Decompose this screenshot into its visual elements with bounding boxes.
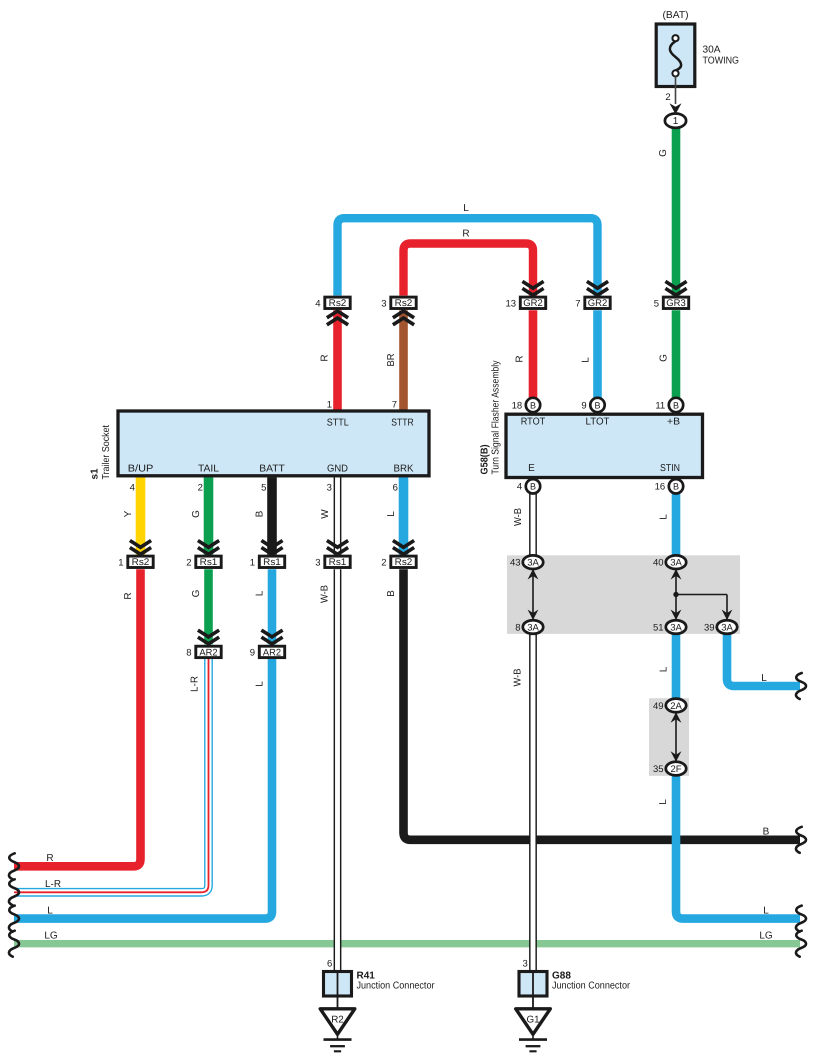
svg-text:Rs1: Rs1 xyxy=(329,557,347,568)
svg-text:AR2: AR2 xyxy=(263,647,281,658)
svg-text:L: L xyxy=(581,357,592,363)
svg-text:G58(B): G58(B) xyxy=(479,445,490,475)
svg-text:Junction Connector: Junction Connector xyxy=(552,981,631,992)
svg-text:BRK: BRK xyxy=(394,463,414,474)
svg-text:B: B xyxy=(673,482,679,492)
svg-text:L: L xyxy=(658,799,669,805)
svg-text:Rs2: Rs2 xyxy=(395,557,413,568)
svg-text:G: G xyxy=(191,510,202,518)
svg-text:8: 8 xyxy=(186,648,191,659)
svg-text:LG: LG xyxy=(44,931,58,942)
svg-text:B/UP: B/UP xyxy=(128,463,154,474)
svg-text:W: W xyxy=(320,509,331,519)
svg-text:Y: Y xyxy=(123,510,134,517)
svg-text:11: 11 xyxy=(655,400,665,411)
svg-text:W-B: W-B xyxy=(320,585,331,603)
svg-text:STTR: STTR xyxy=(391,418,414,429)
svg-text:2: 2 xyxy=(381,557,386,568)
svg-text:L-R: L-R xyxy=(190,676,201,692)
svg-text:3: 3 xyxy=(523,959,528,970)
svg-text:30A: 30A xyxy=(703,45,721,56)
svg-text:GR3: GR3 xyxy=(666,298,686,309)
svg-text:L: L xyxy=(47,905,53,916)
svg-text:G: G xyxy=(658,149,669,157)
svg-text:1: 1 xyxy=(327,400,332,411)
svg-text:B: B xyxy=(530,400,536,410)
svg-text:Rs2: Rs2 xyxy=(132,557,150,568)
svg-text:GR2: GR2 xyxy=(588,298,608,309)
svg-text:Junction Connector: Junction Connector xyxy=(357,981,436,992)
svg-text:49: 49 xyxy=(653,701,664,712)
svg-text:3A: 3A xyxy=(527,622,539,633)
svg-text:1: 1 xyxy=(250,557,255,568)
svg-text:GR2: GR2 xyxy=(523,298,543,309)
svg-text:LG: LG xyxy=(759,931,773,942)
svg-text:B: B xyxy=(594,400,600,410)
svg-text:(BAT): (BAT) xyxy=(663,10,689,21)
svg-text:3A: 3A xyxy=(670,622,682,633)
svg-text:2A: 2A xyxy=(670,701,682,712)
svg-text:4: 4 xyxy=(130,482,135,493)
svg-text:GND: GND xyxy=(327,463,348,474)
svg-text:G: G xyxy=(191,589,202,597)
svg-text:L: L xyxy=(255,590,266,596)
svg-text:5: 5 xyxy=(261,482,266,493)
svg-text:R: R xyxy=(46,853,53,864)
svg-text:43: 43 xyxy=(510,558,521,569)
svg-text:16: 16 xyxy=(655,482,666,493)
svg-text:6: 6 xyxy=(327,959,332,970)
svg-text:R: R xyxy=(123,592,134,599)
svg-text:B: B xyxy=(763,827,770,838)
svg-text:Rs1: Rs1 xyxy=(263,557,281,568)
svg-text:2: 2 xyxy=(198,482,203,493)
svg-text:LTOT: LTOT xyxy=(586,417,610,428)
svg-text:R: R xyxy=(462,228,469,239)
svg-text:3A: 3A xyxy=(670,558,682,569)
svg-text:9: 9 xyxy=(250,648,255,659)
svg-text:39: 39 xyxy=(704,622,715,633)
svg-text:9: 9 xyxy=(581,400,586,411)
svg-text:R: R xyxy=(515,355,526,362)
svg-text:2F: 2F xyxy=(670,764,681,775)
svg-text:Rs1: Rs1 xyxy=(200,557,218,568)
svg-text:2: 2 xyxy=(186,557,191,568)
svg-text:TAIL: TAIL xyxy=(198,463,219,474)
svg-text:5: 5 xyxy=(654,298,659,309)
svg-text:2: 2 xyxy=(665,92,670,103)
svg-text:7: 7 xyxy=(392,400,397,411)
svg-text:L: L xyxy=(659,514,670,520)
svg-text:BR: BR xyxy=(386,354,397,367)
svg-text:B: B xyxy=(255,510,266,517)
svg-text:L-R: L-R xyxy=(45,879,61,890)
svg-text:R2: R2 xyxy=(331,1015,344,1026)
svg-text:Trailer Socket: Trailer Socket xyxy=(101,425,112,480)
svg-text:AR2: AR2 xyxy=(199,647,217,658)
svg-text:R: R xyxy=(320,354,331,361)
svg-text:G: G xyxy=(659,354,670,362)
svg-text:+B: +B xyxy=(667,417,680,428)
svg-text:3: 3 xyxy=(315,557,320,568)
svg-text:TOWING: TOWING xyxy=(703,56,740,67)
svg-text:E: E xyxy=(528,463,535,474)
svg-text:3A: 3A xyxy=(527,558,539,569)
svg-text:RTOT: RTOT xyxy=(521,417,546,428)
svg-text:1: 1 xyxy=(673,116,679,127)
svg-text:W-B: W-B xyxy=(513,508,524,526)
svg-text:STTL: STTL xyxy=(327,418,349,429)
svg-text:B: B xyxy=(386,590,397,597)
svg-text:L: L xyxy=(463,203,469,214)
svg-text:L: L xyxy=(761,673,767,684)
svg-text:L: L xyxy=(386,511,397,517)
svg-text:Rs2: Rs2 xyxy=(395,298,413,309)
svg-text:B: B xyxy=(530,482,536,492)
svg-text:3: 3 xyxy=(327,482,332,493)
svg-text:35: 35 xyxy=(653,764,664,775)
svg-text:Rs2: Rs2 xyxy=(329,298,347,309)
svg-text:18: 18 xyxy=(512,400,523,411)
svg-text:G1: G1 xyxy=(526,1015,539,1026)
svg-text:13: 13 xyxy=(506,298,517,309)
svg-text:1: 1 xyxy=(118,557,123,568)
svg-text:STIN: STIN xyxy=(660,463,680,474)
svg-text:BATT: BATT xyxy=(259,463,285,474)
svg-text:L: L xyxy=(255,681,266,687)
svg-text:4: 4 xyxy=(517,482,522,493)
svg-text:L: L xyxy=(763,905,769,916)
svg-text:40: 40 xyxy=(653,558,664,569)
svg-text:Turn Signal Flasher Assembly: Turn Signal Flasher Assembly xyxy=(490,361,501,475)
svg-text:6: 6 xyxy=(393,482,398,493)
svg-text:W-B: W-B xyxy=(513,668,524,686)
svg-text:L: L xyxy=(659,666,670,672)
svg-text:3A: 3A xyxy=(721,622,733,633)
svg-text:8: 8 xyxy=(515,622,520,633)
svg-text:4: 4 xyxy=(315,298,320,309)
svg-text:3: 3 xyxy=(381,298,386,309)
svg-text:B: B xyxy=(673,400,679,410)
svg-text:s1: s1 xyxy=(89,468,100,480)
svg-text:7: 7 xyxy=(575,298,580,309)
svg-text:51: 51 xyxy=(653,622,664,633)
